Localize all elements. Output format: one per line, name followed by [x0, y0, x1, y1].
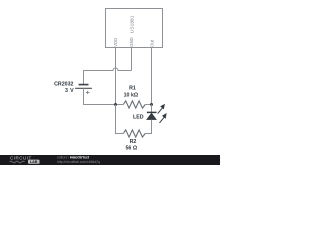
- resistor R2 zigzag: [123, 130, 145, 137]
- wire R1 right lead to node B: [145, 104, 151, 106]
- watermark editors credit text: [57, 156, 90, 160]
- battery label CR2032: [54, 81, 73, 87]
- wire R2 left column from node A down: [116, 105, 124, 134]
- LED light emission arrow 1: [158, 104, 165, 114]
- battery V1 CR2032 plates: [75, 85, 92, 89]
- wire LED anode down to R2 right corner: [145, 120, 151, 134]
- wire Out pin column (box bottom to node B): [151, 48, 153, 105]
- IC name label US1881: [129, 15, 135, 33]
- svg-text:R2: R2: [130, 139, 137, 145]
- R2 value label 56 Ohm: [125, 146, 137, 152]
- wire battery positive down and right to node A: [84, 88, 116, 104]
- LED D1 triangle (anode below, pointing up): [147, 113, 157, 120]
- svg-text:US1881: US1881: [129, 15, 135, 33]
- svg-text:R1: R1: [129, 86, 136, 92]
- pin label Out (pin 3): [149, 39, 154, 47]
- junction node B (R1, Out, LED): [150, 103, 153, 106]
- watermark url text: [57, 160, 100, 164]
- battery plus sign: [86, 91, 90, 94]
- svg-text:GND: GND: [129, 37, 134, 47]
- svg-text:LED: LED: [133, 114, 144, 120]
- svg-text:CR2032: CR2032: [54, 81, 73, 87]
- svg-text:10 kΩ: 10 kΩ: [124, 93, 139, 99]
- svg-text:56 Ω: 56 Ω: [125, 146, 137, 152]
- wire battery negative to GND rail with hop over VDD column: [84, 68, 132, 85]
- svg-text:LAB: LAB: [30, 160, 38, 164]
- wire node A to R1 left lead: [116, 104, 124, 106]
- wire node B down to LED cathode bar: [151, 105, 153, 113]
- watermark CircuitLab logo: [10, 156, 40, 165]
- R1 designator label: [129, 86, 136, 92]
- battery value label 3 V: [65, 88, 74, 94]
- junction node A (battery+, R1, R2 column): [114, 103, 117, 106]
- wire GND pin stub (box bottom down to GND rail corner): [131, 48, 133, 71]
- svg-text:VDD: VDD: [113, 38, 118, 47]
- svg-text:3 V: 3 V: [65, 88, 74, 94]
- LED light emission arrow 2: [160, 113, 167, 123]
- R1 value label 10 kOhm: [124, 93, 139, 99]
- resistor R1 zigzag: [123, 101, 145, 108]
- pin label VDD (pin 1): [113, 38, 118, 47]
- wire VDD pin column (box bottom to node A, crosses under hop): [115, 48, 117, 105]
- svg-text:Out: Out: [149, 39, 154, 47]
- R2 designator label: [130, 139, 137, 145]
- watermark bar: [0, 155, 220, 165]
- LED label: [133, 114, 144, 120]
- IC U1 US1881 body: [106, 9, 163, 48]
- pin label GND (pin 2): [129, 37, 134, 47]
- svg-text:http://circuitlab.com/c66kd2q: http://circuitlab.com/c66kd2q: [57, 160, 100, 164]
- LED D1 cathode bar: [147, 111, 157, 113]
